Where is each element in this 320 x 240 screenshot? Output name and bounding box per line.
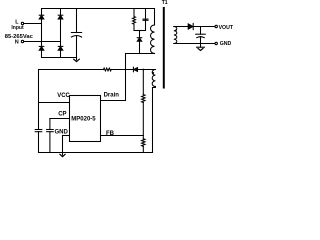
svg-text:GND: GND: [55, 129, 69, 135]
wire drain vertical: [125, 54, 127, 101]
wire bridge bottom rail: [42, 57, 77, 59]
transformer T1 secondary winding: [174, 27, 177, 44]
diode D2 bridge top-right: [58, 15, 63, 19]
wire drain to primary bottom: [126, 53, 155, 55]
node aux phase dot: [152, 72, 154, 74]
wire bridge left branch: [41, 9, 43, 58]
terminal L circle: [21, 22, 23, 24]
ground symbol bridge: [74, 58, 80, 62]
diode D5 clamp: [137, 31, 142, 54]
capacitor C4 CP: [47, 119, 54, 153]
wire VCC vertical: [38, 70, 40, 130]
wire VCC pin: [39, 102, 70, 104]
wire GND pin: [63, 135, 70, 137]
svg-text:N: N: [15, 40, 19, 46]
svg-text:Drain: Drain: [104, 93, 120, 99]
wire FB pin: [101, 135, 144, 137]
diode D3 bridge bottom-left: [39, 46, 44, 50]
resistor R2 aux series: [104, 68, 112, 71]
wire top rail: [42, 8, 155, 10]
ground symbol main: [60, 153, 65, 157]
svg-text:VOUT: VOUT: [219, 25, 234, 31]
wire aux feedback horizontal: [39, 69, 104, 71]
svg-text:MP020-5: MP020-5: [71, 117, 96, 123]
capacitor C3 VCC: [35, 130, 42, 153]
wire aux return: [153, 87, 156, 153]
resistor R3 divider upper: [142, 95, 145, 103]
wire clamp bottom bar: [134, 30, 146, 32]
resistor R4 divider lower: [142, 139, 145, 147]
wire secondary bottom: [174, 43, 215, 45]
node aux divider junction: [142, 69, 144, 71]
wire secondary top: [174, 26, 188, 28]
wire divider top: [142, 70, 144, 95]
wire secondary to VOUT: [193, 26, 215, 28]
op-amp U1 MP020-5 box: [70, 96, 101, 142]
wire CP pin: [50, 118, 70, 120]
diode D1 bridge top-left: [39, 15, 44, 19]
wire bottom rail: [39, 152, 153, 154]
transformer T1 primary winding: [151, 9, 155, 54]
node secondary phase dot: [175, 30, 177, 32]
diode D4 bridge bottom-right: [58, 46, 63, 50]
wire drain pin: [101, 100, 126, 102]
wire aux mid: [111, 69, 133, 71]
terminal GND circle: [215, 42, 217, 44]
transformer T1 aux winding: [152, 70, 155, 87]
svg-text:CP: CP: [58, 112, 66, 118]
transformer T1 core: [163, 8, 165, 88]
diode D7 output: [188, 23, 193, 29]
svg-text:VCC: VCC: [57, 93, 70, 99]
diode D6 aux: [133, 67, 137, 72]
svg-text:GND: GND: [220, 41, 232, 47]
wire N input: [24, 41, 61, 43]
wire bridge right branch: [60, 9, 62, 58]
ground symbol output: [197, 44, 205, 51]
wire aux right: [138, 69, 156, 71]
capacitor C1 bulk: [71, 9, 81, 58]
capacitor C2 clamp: [143, 9, 148, 31]
svg-text:T1: T1: [162, 0, 168, 6]
wire divider bottom: [142, 146, 144, 152]
svg-text:Input: Input: [11, 25, 24, 31]
capacitor C5 output: [196, 27, 206, 44]
terminal N circle: [21, 40, 23, 42]
svg-text:85-265Vac: 85-265Vac: [5, 34, 34, 40]
wire GND down: [62, 136, 64, 153]
resistor R1 clamp: [133, 9, 136, 31]
wire L input: [24, 23, 42, 25]
wire divider middle: [142, 103, 144, 139]
terminal VOUT circle: [215, 25, 217, 27]
